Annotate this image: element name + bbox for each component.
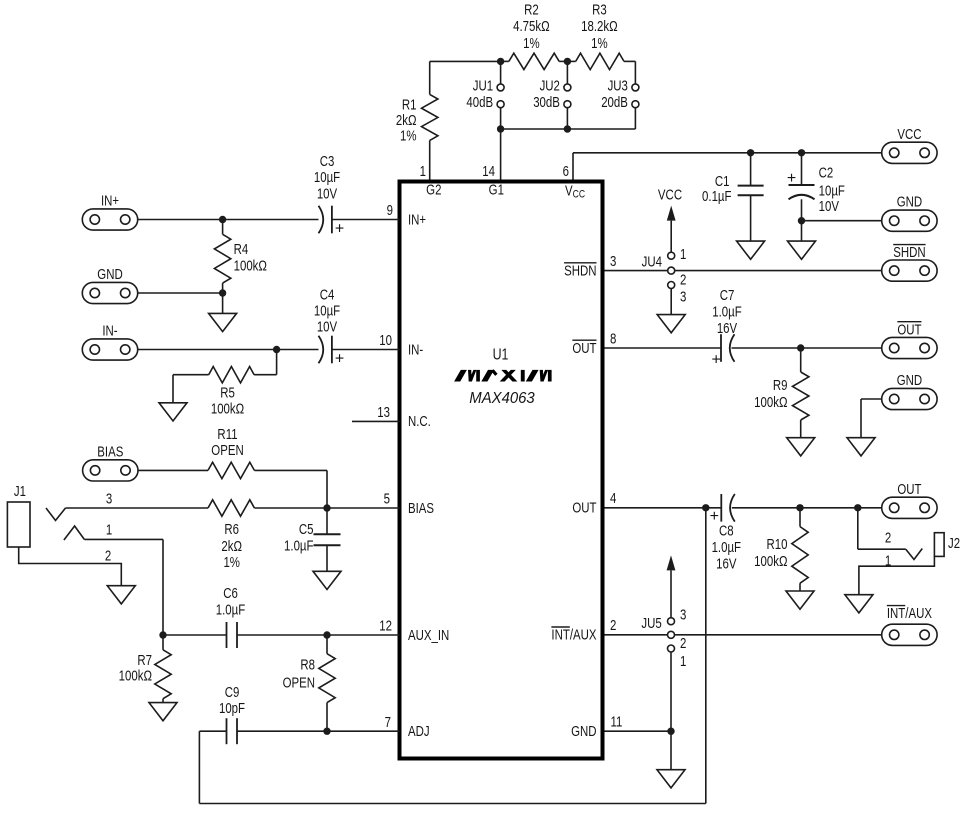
svg-text:1: 1 (680, 246, 686, 263)
svg-text:AUX_IN: AUX_IN (408, 627, 449, 644)
svg-text:OUT: OUT (897, 481, 921, 498)
svg-text:1: 1 (885, 552, 891, 569)
svg-text:MAX4063: MAX4063 (469, 389, 535, 406)
svg-text:2kΩ: 2kΩ (396, 112, 417, 129)
svg-text:14: 14 (482, 163, 495, 180)
svg-text:16V: 16V (716, 555, 737, 572)
svg-text:2: 2 (680, 635, 686, 652)
svg-text:OPEN: OPEN (283, 674, 315, 691)
svg-text:40dB: 40dB (466, 94, 493, 111)
svg-text:IN-: IN- (408, 341, 423, 358)
svg-text:VCC: VCC (897, 126, 921, 143)
svg-text:4: 4 (610, 490, 616, 507)
svg-text:INT/AUX: INT/AUX (551, 626, 596, 643)
svg-text:1.0µF: 1.0µF (712, 303, 742, 320)
svg-text:+: + (335, 350, 344, 367)
svg-text:6: 6 (563, 163, 569, 180)
svg-text:1.0µF: 1.0µF (216, 601, 246, 618)
svg-text:BIAS: BIAS (97, 443, 123, 460)
svg-text:13: 13 (377, 404, 390, 421)
svg-text:10V: 10V (317, 318, 338, 335)
svg-text:1%: 1% (400, 127, 417, 144)
svg-text:GND: GND (97, 266, 122, 283)
svg-text:R11: R11 (217, 426, 237, 443)
svg-text:2: 2 (610, 617, 616, 634)
svg-text:1%: 1% (523, 35, 540, 52)
svg-text:R5: R5 (220, 384, 235, 401)
svg-text:SHDN: SHDN (564, 262, 596, 279)
svg-text:R2: R2 (524, 1, 539, 18)
svg-text:R7: R7 (137, 652, 152, 669)
svg-text:IN+: IN+ (101, 192, 119, 209)
svg-text:R3: R3 (592, 1, 607, 18)
svg-text:2: 2 (885, 529, 891, 546)
svg-text:18.2kΩ: 18.2kΩ (581, 18, 618, 35)
svg-text:C7: C7 (720, 287, 735, 304)
svg-text:4.75kΩ: 4.75kΩ (513, 18, 550, 35)
svg-text:C6: C6 (223, 585, 238, 602)
svg-text:BIAS: BIAS (408, 500, 434, 517)
svg-text:3: 3 (680, 288, 686, 305)
svg-text:1%: 1% (591, 35, 608, 52)
svg-text:JU1: JU1 (473, 77, 493, 94)
svg-text:OUT: OUT (572, 499, 596, 516)
svg-text:G1: G1 (489, 181, 504, 198)
svg-text:SHDN: SHDN (893, 244, 925, 261)
svg-text:+: + (787, 170, 796, 187)
svg-text:10pF: 10pF (219, 700, 245, 717)
svg-text:10V: 10V (819, 198, 840, 215)
svg-text:100kΩ: 100kΩ (754, 394, 788, 411)
svg-text:+: + (710, 508, 719, 525)
svg-text:20dB: 20dB (601, 94, 628, 111)
svg-text:INT/AUX: INT/AUX (887, 605, 932, 622)
svg-text:R10: R10 (767, 536, 788, 553)
svg-text:ADJ: ADJ (408, 723, 430, 740)
svg-text:+: + (712, 351, 721, 368)
svg-text:1: 1 (680, 653, 686, 670)
svg-text:0.1µF: 0.1µF (702, 188, 732, 205)
svg-text:R6: R6 (224, 521, 239, 538)
svg-text:100kΩ: 100kΩ (234, 257, 268, 274)
svg-text:5: 5 (384, 490, 390, 507)
svg-text:+: + (335, 220, 344, 237)
svg-text:VCC: VCC (658, 186, 682, 203)
svg-text:10: 10 (379, 332, 392, 349)
svg-text:30dB: 30dB (533, 94, 560, 111)
svg-text:3: 3 (106, 490, 112, 507)
svg-text:2kΩ: 2kΩ (221, 538, 242, 555)
svg-text:C8: C8 (719, 522, 734, 539)
svg-text:7: 7 (385, 714, 391, 731)
svg-text:10µF: 10µF (819, 182, 845, 199)
svg-text:100kΩ: 100kΩ (754, 553, 788, 570)
svg-text:C3: C3 (320, 153, 335, 170)
svg-text:11: 11 (611, 713, 623, 730)
svg-text:JU2: JU2 (540, 77, 560, 94)
svg-text:GND: GND (897, 193, 922, 210)
svg-text:OPEN: OPEN (211, 442, 243, 459)
svg-text:J2: J2 (948, 535, 960, 552)
svg-text:2: 2 (105, 547, 111, 564)
svg-text:G2: G2 (426, 181, 441, 198)
svg-text:R8: R8 (300, 656, 315, 673)
svg-text:JU4: JU4 (642, 253, 662, 270)
svg-text:U1: U1 (493, 345, 509, 363)
svg-text:1.0µF: 1.0µF (712, 539, 742, 556)
svg-text:N.C.: N.C. (408, 413, 431, 430)
svg-text:C2: C2 (819, 164, 834, 181)
svg-text:12: 12 (379, 617, 392, 634)
svg-text:C5: C5 (299, 521, 314, 538)
svg-text:J1: J1 (14, 483, 26, 500)
svg-text:JU5: JU5 (641, 615, 661, 632)
svg-text:IN+: IN+ (408, 211, 426, 228)
svg-text:3: 3 (680, 606, 686, 623)
svg-text:R4: R4 (234, 241, 249, 258)
svg-text:OUT: OUT (897, 321, 921, 338)
svg-text:C9: C9 (225, 684, 240, 701)
svg-text:OUT: OUT (572, 340, 596, 357)
svg-text:GND: GND (571, 723, 596, 740)
svg-text:3: 3 (610, 253, 616, 270)
svg-text:C4: C4 (320, 286, 335, 303)
svg-text:1: 1 (106, 521, 112, 538)
svg-text:GND: GND (897, 372, 922, 389)
svg-text:IN-: IN- (102, 322, 117, 339)
svg-text:JU3: JU3 (608, 77, 628, 94)
svg-text:100kΩ: 100kΩ (211, 400, 245, 417)
svg-text:16V: 16V (717, 320, 738, 337)
svg-text:1: 1 (420, 163, 426, 180)
svg-text:9: 9 (387, 202, 393, 219)
svg-text:100kΩ: 100kΩ (119, 667, 153, 684)
svg-text:1%: 1% (223, 554, 240, 571)
svg-text:8: 8 (610, 330, 616, 347)
svg-text:R9: R9 (773, 377, 788, 394)
svg-text:R1: R1 (402, 96, 417, 113)
svg-text:10µF: 10µF (314, 169, 340, 186)
svg-text:2: 2 (680, 271, 686, 288)
svg-text:1.0µF: 1.0µF (284, 537, 314, 554)
svg-text:10V: 10V (317, 185, 338, 202)
svg-text:10µF: 10µF (314, 302, 340, 319)
